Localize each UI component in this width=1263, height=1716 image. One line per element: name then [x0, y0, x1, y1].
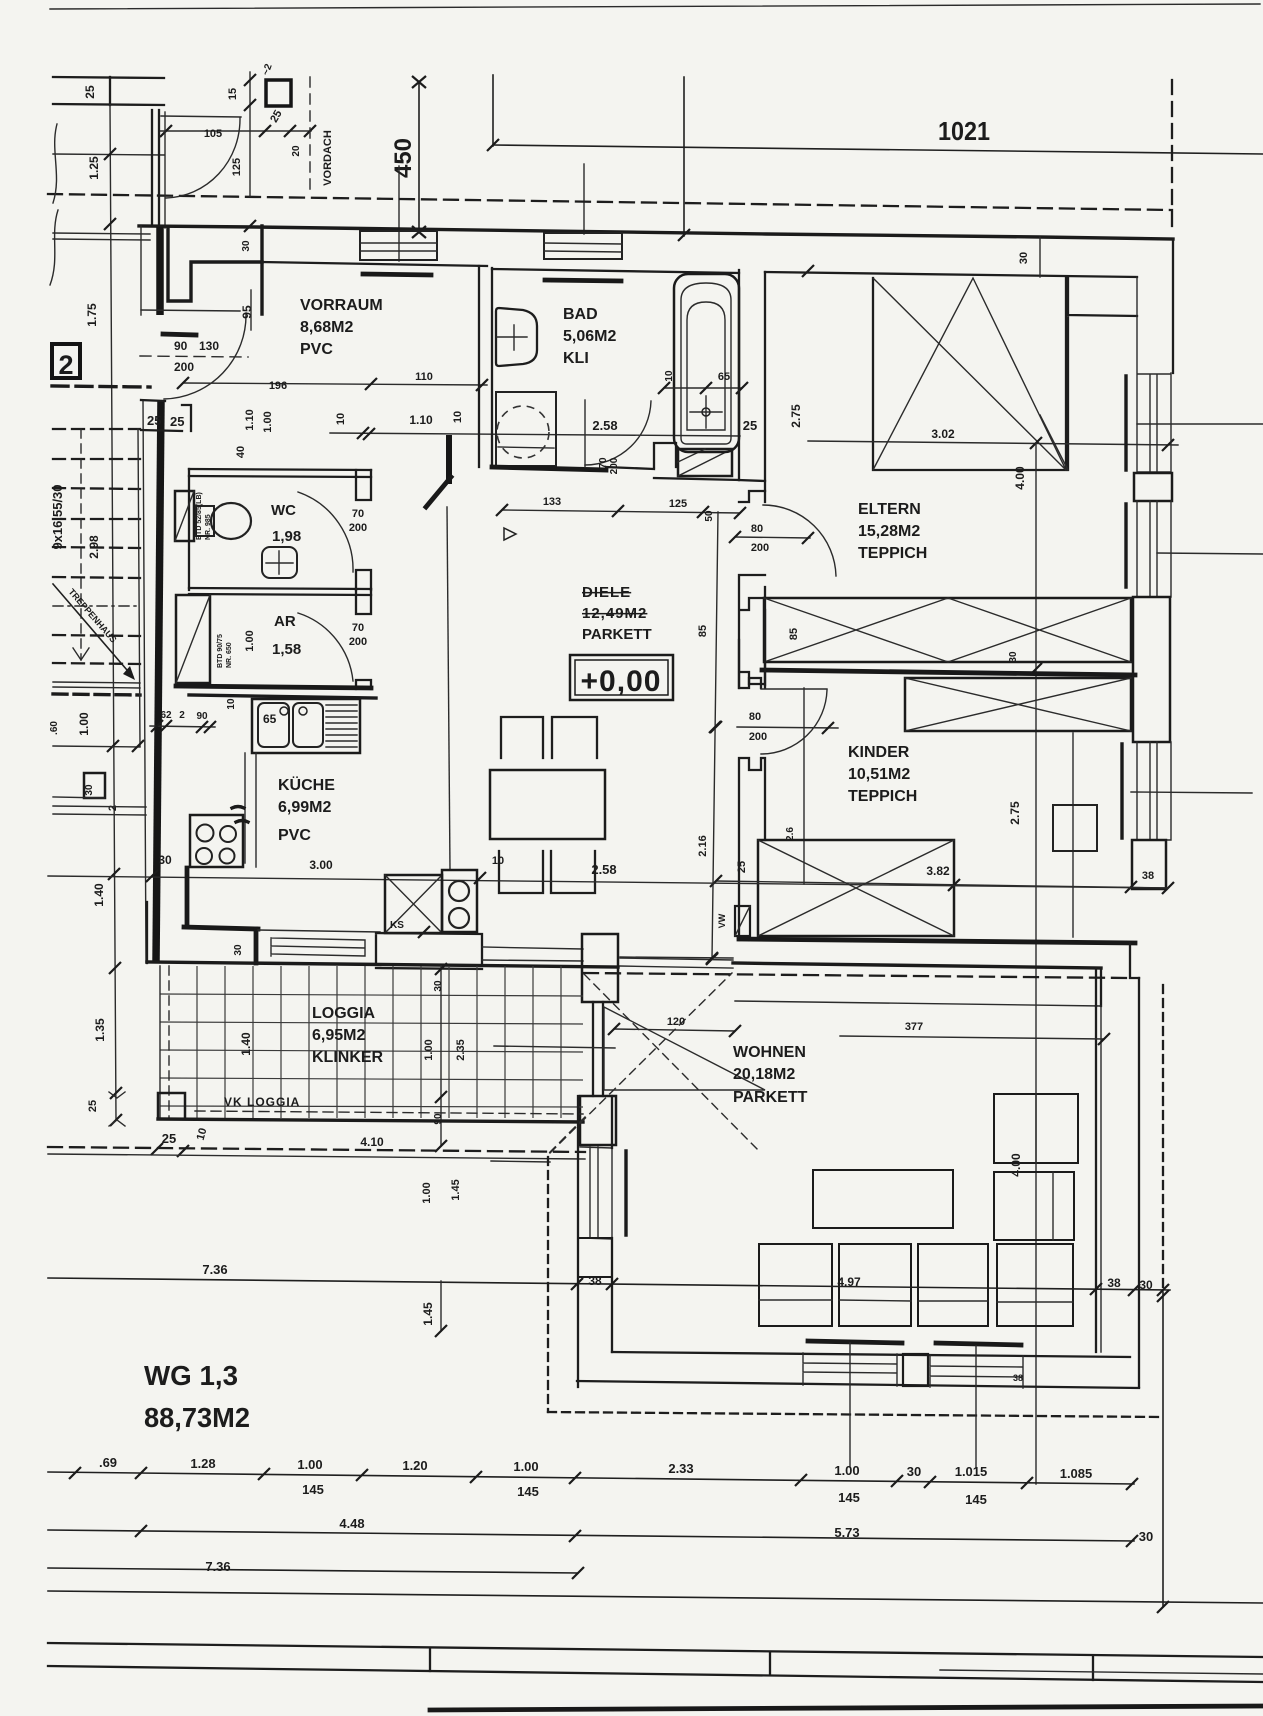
kitchen counter verticals	[245, 753, 256, 867]
stub line right y=553	[1157, 553, 1263, 554]
svg-text:1.45: 1.45	[450, 1179, 462, 1200]
svg-text:+0,00: +0,00	[581, 665, 662, 698]
svg-text:2: 2	[179, 710, 185, 721]
wc west wall	[188, 469, 190, 590]
svg-text:12,49M2: 12,49M2	[582, 605, 647, 622]
svg-text:10: 10	[226, 698, 237, 710]
chain2 ticks	[135, 1525, 1138, 1547]
svg-text:8,68M2: 8,68M2	[300, 319, 353, 336]
tub dim line y=387	[664, 387, 742, 389]
bad north window frame	[544, 233, 622, 259]
solid line under dashes	[48, 1154, 585, 1159]
svg-text:38: 38	[1107, 1276, 1121, 1290]
tick bottom of 450 line	[412, 226, 426, 238]
tick top of 450 line	[412, 76, 426, 88]
wc east wall with door jambs	[356, 470, 371, 590]
chain1 ticks	[69, 1467, 1138, 1490]
kitchen-loggia window lines	[271, 938, 365, 956]
kitchen south pier bold	[254, 929, 259, 963]
svg-text:2.75: 2.75	[1008, 801, 1022, 825]
thin vertical x=399	[398, 166, 400, 261]
eltern bed X right	[948, 598, 1131, 662]
kitchen sill thin line	[258, 930, 380, 932]
kinder door dim line	[737, 727, 838, 728]
svg-text:1.00: 1.00	[423, 1039, 435, 1060]
svg-text:BTD 90/75: BTD 90/75	[217, 634, 224, 668]
vorraum north window frame	[360, 231, 437, 260]
svg-text:ELTERN: ELTERN	[858, 501, 921, 518]
big pier block	[1133, 597, 1170, 742]
svg-text:30: 30	[433, 980, 444, 992]
loggia bottom corner square	[158, 1093, 185, 1119]
svg-text:4.00: 4.00	[1009, 1153, 1023, 1177]
wc block north wall	[189, 469, 371, 477]
diele chairs bottom	[499, 851, 595, 893]
svg-text:PVC: PVC	[278, 827, 311, 844]
svg-text:4.97: 4.97	[837, 1275, 861, 1289]
bad door swing arc	[585, 401, 651, 465]
kitchen south wall horizontal bold	[184, 927, 258, 929]
loggia east pillar top	[582, 934, 618, 1002]
kinder window band	[1137, 742, 1171, 840]
west pier block	[578, 1238, 612, 1277]
stair walking line dashed vertical	[80, 429, 82, 660]
left vertical reference line	[110, 105, 116, 1120]
lines y=797..820	[53, 797, 146, 815]
loggia tile grid verticals	[197, 966, 561, 1118]
bad inner wall edge top	[492, 269, 739, 273]
svg-text:25: 25	[743, 418, 757, 433]
svg-text:1.20: 1.20	[402, 1458, 427, 1473]
label 3.77 dim	[840, 1036, 1104, 1039]
dashed line y=974	[584, 973, 1131, 978]
loggia east pillar bottom	[580, 1096, 616, 1145]
svg-text:90: 90	[433, 1113, 444, 1125]
svg-text:DIELE: DIELE	[582, 584, 631, 601]
line y=310 left block	[141, 310, 240, 311]
right wall: eltern window outer	[1172, 239, 1174, 373]
entry door bold stub	[163, 334, 196, 335]
svg-text:70: 70	[352, 508, 364, 520]
landing line a	[53, 682, 140, 683]
bottom dimension chain 1	[48, 1472, 1134, 1484]
small triangle marker	[504, 528, 516, 540]
dashed vertical boundary x=548	[547, 1157, 549, 1412]
diele chairs top	[501, 717, 597, 758]
svg-text:NR. 985: NR. 985	[205, 514, 212, 540]
svg-text:200: 200	[349, 522, 367, 534]
svg-text:9x16,55/30: 9x16,55/30	[50, 484, 65, 549]
svg-text:200: 200	[749, 731, 767, 743]
svg-text:80: 80	[749, 711, 761, 723]
curtain bold eltern window	[1124, 376, 1127, 470]
svg-text:196: 196	[269, 380, 287, 392]
svg-text:95: 95	[240, 305, 254, 319]
svg-text:30: 30	[84, 784, 95, 796]
ticks on 105 line	[160, 125, 316, 137]
svg-text:133: 133	[543, 496, 561, 508]
bad south wall bold	[492, 467, 606, 470]
svg-text:25: 25	[147, 413, 161, 428]
eltern bed X left	[764, 598, 948, 662]
wall under tub	[606, 467, 739, 480]
stair right edge vertical	[138, 429, 140, 746]
svg-text:VK LOGGIA: VK LOGGIA	[224, 1095, 300, 1109]
vordach post square	[266, 80, 291, 106]
ticks on line y=1279	[571, 1278, 1169, 1296]
svg-text:1.085: 1.085	[1060, 1466, 1093, 1481]
svg-text:10: 10	[335, 413, 347, 425]
eltern inner wall edge top	[765, 272, 1137, 277]
svg-text:30: 30	[158, 853, 172, 867]
band verticals	[430, 1648, 1093, 1680]
tick at 493,145	[487, 139, 499, 151]
svg-text:.69: .69	[99, 1455, 117, 1470]
svg-text:7.36: 7.36	[202, 1262, 227, 1277]
svg-text:25: 25	[87, 1100, 99, 1112]
dimension line 105/25/20	[160, 130, 311, 132]
ar door swing arc	[298, 613, 353, 681]
stove smudge marks	[232, 807, 248, 823]
diagonal wall corner vorraum/diele	[426, 477, 451, 507]
svg-text:VORDACH: VORDACH	[322, 130, 334, 186]
vorraum top wall inner structure	[168, 228, 262, 301]
wohnen south wall inner edge	[612, 1352, 1130, 1357]
svg-text:2.98: 2.98	[87, 535, 101, 559]
svg-text:6,99M2: 6,99M2	[278, 799, 331, 816]
svg-text:1.00: 1.00	[77, 712, 91, 736]
ticks on long line	[146, 870, 486, 938]
svg-text:80: 80	[751, 523, 763, 535]
wc toilet seat	[196, 506, 214, 536]
svg-text:25: 25	[170, 414, 184, 429]
right wall window band eltern	[1137, 277, 1171, 473]
long line y=1279	[48, 1278, 1170, 1290]
svg-text:30: 30	[1008, 651, 1019, 663]
svg-text:377: 377	[905, 1021, 923, 1033]
kinder south dim line 3.82/38	[716, 881, 1168, 888]
thin vertical x=584 above wall	[583, 164, 585, 234]
line 7.36 lower	[48, 1568, 578, 1573]
vertical dim line x=250	[249, 72, 251, 196]
svg-text:1.40: 1.40	[92, 883, 106, 907]
svg-text:145: 145	[838, 1490, 860, 1505]
svg-text:30: 30	[1139, 1529, 1153, 1544]
svg-text:3.82: 3.82	[926, 864, 950, 878]
svg-text:110: 110	[415, 371, 433, 383]
kitchen east wall upper piece	[446, 438, 452, 481]
svg-text:85: 85	[788, 628, 800, 640]
eltern wardrobe X	[873, 278, 1066, 470]
kinder door jamb above	[739, 610, 765, 688]
svg-text:2.33: 2.33	[668, 1461, 693, 1476]
svg-text:130: 130	[199, 339, 219, 353]
wall eltern/kinder	[762, 670, 1135, 675]
svg-text:3.00: 3.00	[309, 858, 333, 872]
vorraum entry vertical dim stub	[250, 290, 252, 330]
curtain bold second	[1124, 504, 1127, 587]
svg-text:KINDER: KINDER	[848, 744, 910, 761]
south band: west pier	[146, 902, 148, 963]
landing line b	[53, 687, 140, 688]
svg-text:WG 1,3: WG 1,3	[144, 1360, 238, 1391]
svg-text:120: 120	[667, 1016, 685, 1028]
exterior west wall outer edge upper	[140, 226, 142, 315]
bathtub drain cross	[690, 396, 722, 428]
svg-text:38: 38	[1142, 870, 1154, 882]
page bottom dark line	[430, 1706, 1263, 1710]
wohnen west inner segments	[611, 1096, 613, 1352]
ar south wall	[176, 686, 371, 688]
svg-text:KLINKER: KLINKER	[312, 1049, 384, 1066]
eltern wardrobe box	[873, 278, 1066, 470]
svg-text:.60: .60	[49, 721, 60, 735]
ticks below loggia	[151, 1143, 189, 1157]
svg-text:1.40: 1.40	[239, 1032, 253, 1056]
svg-text:30: 30	[1139, 1278, 1153, 1292]
closet diagonal	[1040, 415, 1068, 470]
cushion inner lines	[759, 1300, 1073, 1302]
svg-text:105: 105	[204, 128, 222, 140]
svg-text:TEPPICH: TEPPICH	[848, 788, 917, 805]
svg-text:2.58: 2.58	[592, 418, 617, 433]
ar shelf block	[176, 595, 210, 683]
wohnen south wall outer edge	[577, 1381, 1139, 1388]
dimension line y=433	[330, 433, 740, 436]
south window 2	[930, 1355, 1023, 1388]
svg-text:1.00: 1.00	[262, 411, 274, 432]
dimension line 450 vertical	[418, 82, 420, 232]
dashed diagonals terrace door	[550, 973, 760, 1153]
svg-text:1.10: 1.10	[244, 409, 256, 430]
dimension line y=384 196/110	[183, 383, 487, 385]
svg-text:1.10: 1.10	[409, 413, 433, 427]
svg-text:1021: 1021	[938, 116, 990, 146]
loggia dashed vertical tile edge	[168, 966, 170, 1118]
svg-text:90: 90	[196, 711, 208, 722]
svg-text:1.28: 1.28	[190, 1456, 215, 1471]
staircase label 2 box	[52, 344, 80, 378]
tick at 712,958	[706, 952, 718, 964]
tick on top wall at 250	[244, 220, 256, 232]
eltern bed band	[764, 598, 1131, 662]
niche by tub	[654, 443, 676, 467]
apartment entry door swing arc	[164, 313, 246, 399]
kinder desk	[1053, 805, 1097, 851]
svg-text:BTD 52/85(LB): BTD 52/85(LB)	[196, 492, 203, 540]
diele dim line y=511	[502, 510, 740, 513]
wall edge x=165 top	[164, 112, 166, 228]
wohnen west outer edge	[577, 1096, 579, 1387]
vertical x=1040 at top wall	[1039, 237, 1041, 277]
stair tread dash-dot	[53, 605, 140, 607]
curtain bold kinder	[1120, 744, 1123, 838]
svg-text:1.00: 1.00	[244, 630, 256, 651]
sink bowl left	[258, 703, 289, 747]
kinder se step to wohnen	[1130, 943, 1139, 978]
svg-text:85: 85	[697, 625, 709, 637]
armchair right	[994, 1172, 1074, 1240]
band middle segment line	[940, 1670, 1263, 1674]
wohnen ne corner walls	[1096, 968, 1101, 1006]
ks box	[385, 875, 442, 933]
vorraum window radiator bold	[363, 274, 431, 275]
svg-text:2: 2	[58, 350, 73, 380]
svg-text:10: 10	[452, 411, 464, 423]
south pier block	[903, 1354, 928, 1386]
diele-loggia door sill lines	[482, 947, 583, 961]
svg-text:1.00: 1.00	[421, 1182, 433, 1203]
svg-text:88,73M2: 88,73M2	[144, 1402, 250, 1433]
vorraum/bad wall verticals	[479, 266, 492, 467]
south window 1	[803, 1353, 897, 1386]
svg-text:TEPPICH: TEPPICH	[858, 545, 927, 562]
svg-text:145: 145	[302, 1482, 324, 1497]
coffee table	[813, 1170, 953, 1228]
second window band	[1137, 501, 1171, 597]
svg-text:PARKETT: PARKETT	[582, 626, 652, 643]
svg-text:1.25: 1.25	[87, 156, 101, 180]
kitchen sink unit	[252, 699, 360, 753]
svg-text:6,95M2: 6,95M2	[312, 1027, 365, 1044]
wc cistern shaft	[175, 491, 194, 541]
loggia door leaf line	[494, 1046, 615, 1048]
sofa cushions	[759, 1244, 832, 1326]
entry threshold dashes	[140, 356, 248, 357]
stairwell window double line	[53, 233, 150, 240]
svg-text:15: 15	[227, 88, 239, 100]
long dimension line y=877	[48, 876, 1168, 888]
stair direction diagonal with arrow	[53, 584, 133, 677]
pier between windows	[1134, 473, 1172, 501]
svg-text:1.35: 1.35	[93, 1018, 107, 1042]
svg-text:2.35: 2.35	[455, 1039, 467, 1060]
stairwell top wall line b	[53, 104, 164, 105]
svg-text:15,28M2: 15,28M2	[858, 523, 920, 540]
short solid y=1162	[491, 1161, 550, 1162]
small wall block left	[84, 773, 105, 798]
bathtub inner	[681, 283, 731, 444]
long dashed boundary y=1149	[48, 1147, 585, 1152]
dashed vertical at vordach x=310	[309, 77, 311, 196]
eltern dim line 3.02	[808, 441, 1178, 445]
ticks on x=250	[244, 74, 256, 111]
svg-text:62: 62	[160, 710, 172, 721]
vertical reference x=684	[683, 77, 685, 236]
svg-text:AR: AR	[274, 613, 296, 630]
break squiggle a	[53, 124, 57, 203]
wohnen north wall inner edge	[620, 957, 1101, 1006]
kinder bed	[758, 840, 954, 936]
svg-text:30: 30	[907, 1464, 921, 1479]
svg-text:WOHNEN: WOHNEN	[733, 1044, 806, 1061]
kinder door leaf	[761, 688, 827, 690]
svg-text:4.00: 4.00	[1013, 466, 1027, 490]
bad door leaf	[584, 400, 586, 467]
svg-text:VORRAUM: VORRAUM	[300, 297, 383, 314]
stairwell door swing arc	[166, 118, 240, 198]
svg-text:200: 200	[349, 636, 367, 648]
svg-text:2.58: 2.58	[591, 862, 616, 877]
tick at 138,746	[132, 740, 144, 752]
svg-text:4.10: 4.10	[360, 1135, 384, 1149]
dashed boundary horizontal y=1414	[548, 1412, 1160, 1417]
burner unit 2 rings	[442, 870, 477, 932]
horizontal line y=154	[53, 154, 164, 155]
svg-text:65: 65	[263, 712, 277, 726]
svg-text:KÜCHE: KÜCHE	[278, 775, 335, 794]
bathtub outer	[674, 274, 739, 452]
drainboard hatch	[326, 705, 357, 747]
svg-text:2: 2	[107, 805, 119, 811]
svg-text:1.00: 1.00	[513, 1459, 538, 1474]
tick on x=1036 at 669	[1030, 663, 1042, 675]
east inner wall wohnen	[1095, 1006, 1097, 1352]
vertical dim x=717 diele	[712, 512, 718, 959]
break squiggle b	[50, 210, 58, 285]
svg-text:65: 65	[718, 371, 730, 383]
page top edge line	[50, 4, 1260, 9]
kitchen north wall	[189, 695, 376, 698]
entrance door leaf (stairwell) double line	[152, 110, 159, 225]
svg-text:1.45: 1.45	[421, 1302, 435, 1326]
wc/ar middle wall	[189, 588, 371, 595]
wc door swing arc	[298, 492, 353, 572]
eltern door dim line	[735, 537, 810, 538]
svg-text:200: 200	[174, 360, 194, 374]
svg-text:25: 25	[162, 1131, 176, 1146]
wc washbasin	[262, 547, 297, 578]
svg-text:200: 200	[609, 457, 620, 474]
kitchen dim ticks y=726	[150, 726, 215, 727]
bad washbasin	[496, 308, 537, 366]
bottom band line 2	[48, 1666, 1263, 1682]
kitchen east wall	[447, 507, 450, 870]
svg-text:1.00: 1.00	[297, 1457, 322, 1472]
bottom band line 1	[48, 1643, 1263, 1657]
long reference line under 1021	[493, 145, 1263, 154]
loggia window east double	[593, 1002, 603, 1096]
svg-text:10: 10	[664, 370, 675, 382]
eltern door jamb top	[739, 480, 765, 502]
svg-text:KLI: KLI	[563, 350, 589, 367]
svg-text:PARKETT: PARKETT	[733, 1089, 808, 1106]
svg-text:125: 125	[669, 498, 687, 510]
small jamb blocks below door	[141, 400, 191, 431]
svg-text:38: 38	[1013, 1373, 1023, 1383]
svg-text:2.75: 2.75	[789, 404, 803, 428]
svg-text:KS: KS	[390, 920, 404, 931]
vertical stub at x=493	[492, 75, 494, 146]
eltern door swing arc	[763, 505, 836, 576]
svg-text:PVC: PVC	[300, 341, 333, 358]
dashed vertical boundary x=1163	[1162, 985, 1164, 1292]
radiator bold 1	[808, 1341, 902, 1343]
loggia west edge	[159, 966, 161, 1118]
svg-text:1,58: 1,58	[272, 641, 301, 658]
svg-text:25: 25	[736, 861, 748, 873]
svg-text:1.00: 1.00	[834, 1463, 859, 1478]
svg-text:1.75: 1.75	[85, 303, 99, 327]
kinder desk line	[1072, 733, 1074, 937]
wc toilet bowl	[211, 503, 251, 539]
faucet holes	[280, 707, 288, 715]
curtain bold west window	[624, 1151, 627, 1235]
eltern ne closet	[1068, 277, 1137, 470]
stairwell top wall line a	[53, 77, 164, 78]
svg-text:VW: VW	[717, 913, 727, 928]
svg-text:30: 30	[1018, 252, 1030, 264]
